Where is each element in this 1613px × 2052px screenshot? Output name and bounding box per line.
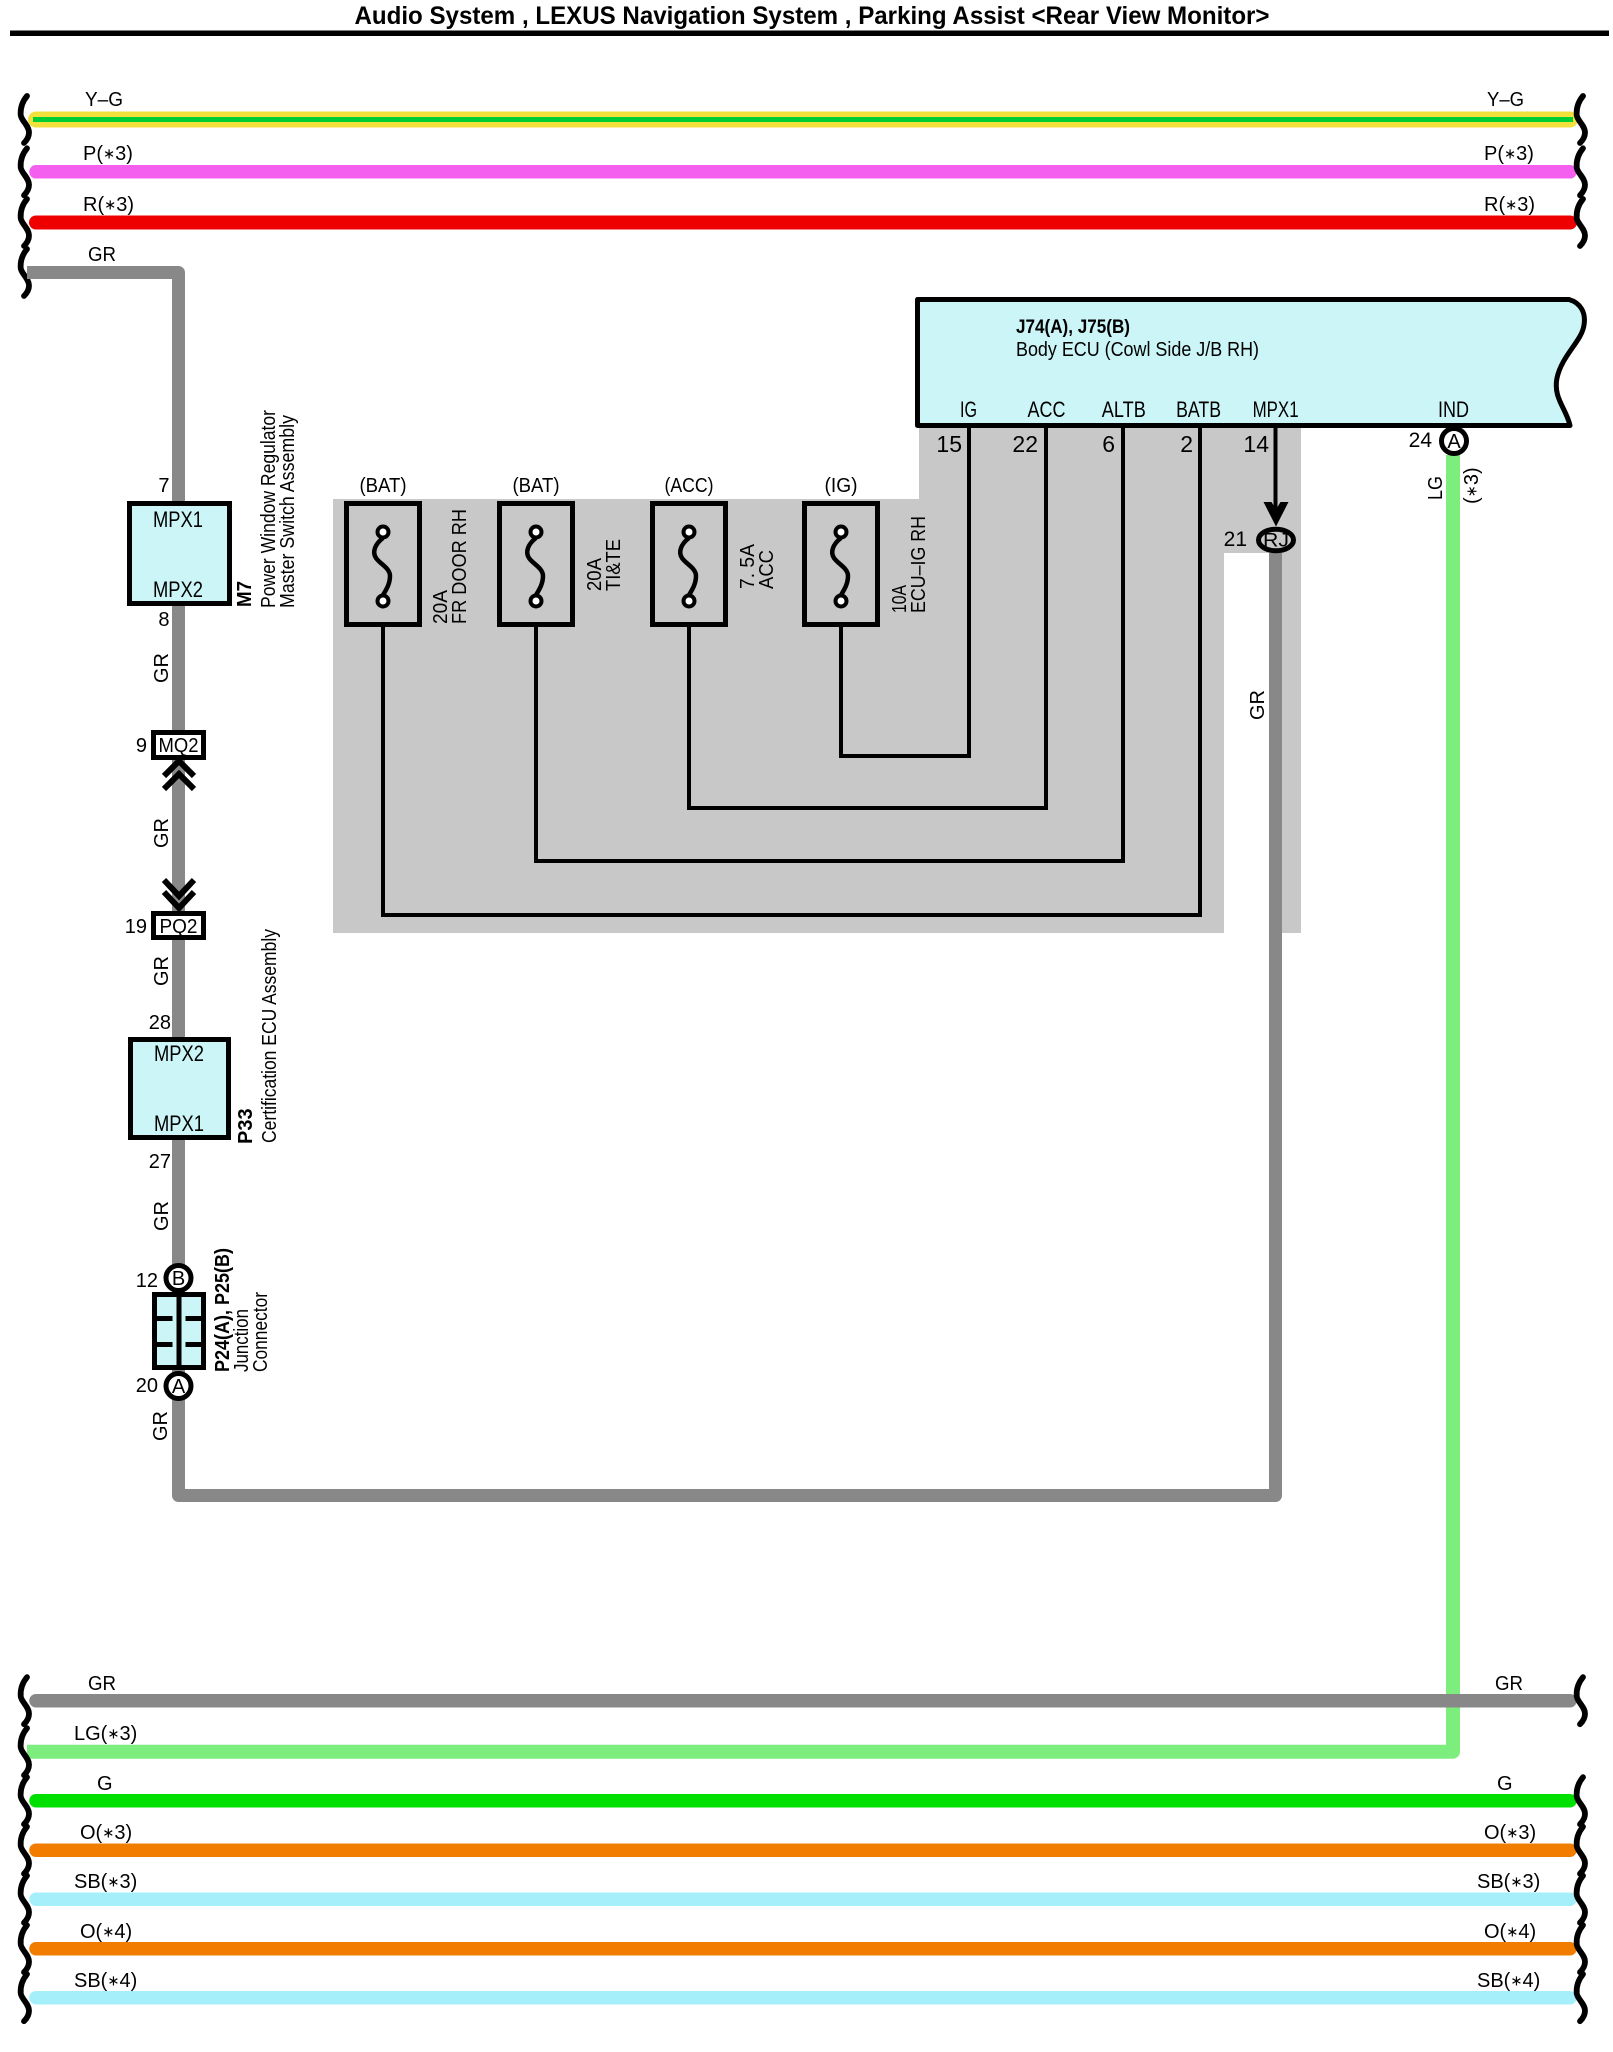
wire SB(*3) bus <box>36 1892 1570 1906</box>
svg-text:LG(∗3): LG(∗3) <box>74 1723 137 1745</box>
svg-text:GR: GR <box>151 818 173 848</box>
fuse (ACC) 7.5A ACC <box>653 475 779 625</box>
svg-text:GR: GR <box>150 1411 172 1441</box>
connector PQ2 <box>154 914 204 938</box>
svg-text:(ACC): (ACC) <box>665 475 714 497</box>
squiggles top right <box>1577 96 1585 143</box>
svg-text:27: 27 <box>149 1151 171 1173</box>
fuse (IG) 10A ECU-IG RH <box>805 475 931 625</box>
wire pin6 column <box>536 428 1123 861</box>
connector MQ2 <box>154 733 204 758</box>
svg-text:Certification ECU Assembly: Certification ECU Assembly <box>259 929 281 1143</box>
connector P24/P25 junction connector <box>155 1248 273 1372</box>
connector RJ <box>1259 529 1294 551</box>
svg-text:GR: GR <box>151 653 173 683</box>
svg-text:BATB: BATB <box>1176 397 1221 422</box>
wire LG from IND to bus <box>27 455 1453 1752</box>
svg-text:(BAT): (BAT) <box>360 475 407 497</box>
svg-text:GR: GR <box>151 1201 173 1231</box>
svg-text:IND: IND <box>1438 397 1469 422</box>
svg-text:(IG): (IG) <box>825 475 858 497</box>
svg-text:7: 7 <box>158 475 169 497</box>
svg-text:GR: GR <box>1247 690 1269 720</box>
svg-text:B: B <box>172 1268 185 1290</box>
svg-text:MPX2: MPX2 <box>153 577 203 602</box>
shading gray J/B region <box>333 428 1301 933</box>
wire R(*3) bus <box>36 216 1570 230</box>
squiggles bottom left <box>21 1677 29 1724</box>
op box M7 Power Window Regulator Master Switch Assembly <box>130 504 230 604</box>
svg-text:ALTB: ALTB <box>1102 397 1146 422</box>
svg-text:Connector: Connector <box>250 1292 272 1372</box>
svg-text:21: 21 <box>1224 528 1247 551</box>
svg-text:R(∗3): R(∗3) <box>83 194 134 216</box>
wire GR bottom bus <box>36 1694 1570 1708</box>
wire pin2 column <box>383 428 1200 915</box>
svg-text:A: A <box>172 1376 186 1398</box>
svg-text:FR DOOR RH: FR DOOR RH <box>449 509 471 624</box>
svg-text:M7: M7 <box>234 581 256 607</box>
svg-text:P33: P33 <box>235 1108 257 1144</box>
svg-text:15: 15 <box>936 431 962 457</box>
svg-text:O(∗4): O(∗4) <box>80 1921 132 1943</box>
svg-text:IG: IG <box>960 397 977 422</box>
svg-text:8: 8 <box>158 609 169 631</box>
svg-text:LG: LG <box>1425 476 1447 500</box>
svg-text:Master Switch Assembly: Master Switch Assembly <box>277 415 299 608</box>
svg-text:Body ECU (Cowl Side J/B RH): Body ECU (Cowl Side J/B RH) <box>1016 338 1259 361</box>
fuse (BAT) 20A TI&TE <box>500 475 626 625</box>
svg-text:2: 2 <box>1180 431 1193 457</box>
svg-text:9: 9 <box>136 735 147 757</box>
svg-text:GR: GR <box>151 956 173 986</box>
svg-text:TI&TE: TI&TE <box>603 539 625 591</box>
svg-text:GR: GR <box>88 244 116 266</box>
wire O(*3) bus <box>36 1843 1570 1857</box>
svg-text:SB(∗4): SB(∗4) <box>1477 1970 1540 1992</box>
junction chevron up <box>164 761 194 789</box>
svg-text:O(∗3): O(∗3) <box>1484 1822 1536 1844</box>
svg-text:ACC: ACC <box>1028 397 1066 422</box>
svg-text:MPX1: MPX1 <box>153 507 203 532</box>
svg-text:SB(∗3): SB(∗3) <box>1477 1871 1540 1893</box>
wire pin22 column <box>689 428 1046 808</box>
junction chevron down <box>164 880 194 908</box>
svg-text:19: 19 <box>125 916 147 938</box>
svg-text:MPX2: MPX2 <box>154 1041 204 1066</box>
svg-text:P(∗3): P(∗3) <box>1484 143 1534 165</box>
svg-text:20: 20 <box>136 1375 158 1397</box>
svg-text:SB(∗4): SB(∗4) <box>74 1970 137 1992</box>
arrow into RJ <box>1264 502 1289 527</box>
squiggles top left <box>21 96 29 143</box>
svg-text:Y–G: Y–G <box>1487 89 1524 111</box>
wire pin14 MPX1 lead <box>1274 428 1278 512</box>
svg-text:R(∗3): R(∗3) <box>1484 194 1535 216</box>
op box P33 Certification ECU Assembly <box>131 1040 229 1138</box>
svg-text:(BAT): (BAT) <box>513 475 560 497</box>
svg-text:ACC: ACC <box>756 550 778 589</box>
svg-text:SB(∗3): SB(∗3) <box>74 1871 137 1893</box>
connector B circle <box>166 1266 191 1291</box>
svg-text:24: 24 <box>1409 429 1433 452</box>
svg-text:28: 28 <box>149 1012 171 1034</box>
svg-text:P(∗3): P(∗3) <box>83 143 133 165</box>
svg-text:Y–G: Y–G <box>85 89 123 111</box>
svg-text:(∗3): (∗3) <box>1461 467 1483 504</box>
wire G bus <box>36 1794 1570 1808</box>
svg-text:14: 14 <box>1243 431 1269 457</box>
svg-text:12: 12 <box>136 1270 158 1292</box>
svg-text:O(∗3): O(∗3) <box>80 1822 132 1844</box>
svg-text:G: G <box>1497 1773 1513 1795</box>
svg-text:22: 22 <box>1012 431 1038 457</box>
svg-text:MPX1: MPX1 <box>1253 397 1299 422</box>
svg-text:6: 6 <box>1102 431 1115 457</box>
svg-text:Audio System , LEXUS Navigatio: Audio System , LEXUS Navigation System ,… <box>355 2 1270 30</box>
svg-text:MPX1: MPX1 <box>154 1111 204 1136</box>
wire O(*4) bus <box>36 1942 1570 1956</box>
fuse (BAT) 20A FR DOOR RH <box>347 475 472 625</box>
squiggles bottom right <box>1577 1677 1585 1724</box>
svg-text:MQ2: MQ2 <box>159 735 199 757</box>
connector A circle <box>166 1374 191 1399</box>
wire P(*3) bus <box>36 165 1570 179</box>
svg-text:GR: GR <box>1495 1673 1523 1695</box>
svg-text:ECU–IG RH: ECU–IG RH <box>908 516 930 613</box>
svg-text:J74(A), J75(B): J74(A), J75(B) <box>1016 316 1130 338</box>
svg-text:GR: GR <box>88 1673 116 1695</box>
title rule <box>10 31 1609 37</box>
svg-text:A: A <box>1447 431 1461 453</box>
op box J74/J75 Body ECU <box>918 300 1585 426</box>
wire Y-G bus <box>36 112 1570 128</box>
svg-text:O(∗4): O(∗4) <box>1484 1921 1536 1943</box>
svg-text:G: G <box>97 1773 113 1795</box>
svg-text:PQ2: PQ2 <box>160 916 198 938</box>
svg-text:RJ: RJ <box>1263 531 1289 552</box>
wire SB(*4) bus <box>36 1991 1570 2005</box>
wire pin15 column <box>841 428 969 756</box>
wire GR main chain <box>27 273 1276 1496</box>
connector A circle IND 24 <box>1442 429 1467 454</box>
